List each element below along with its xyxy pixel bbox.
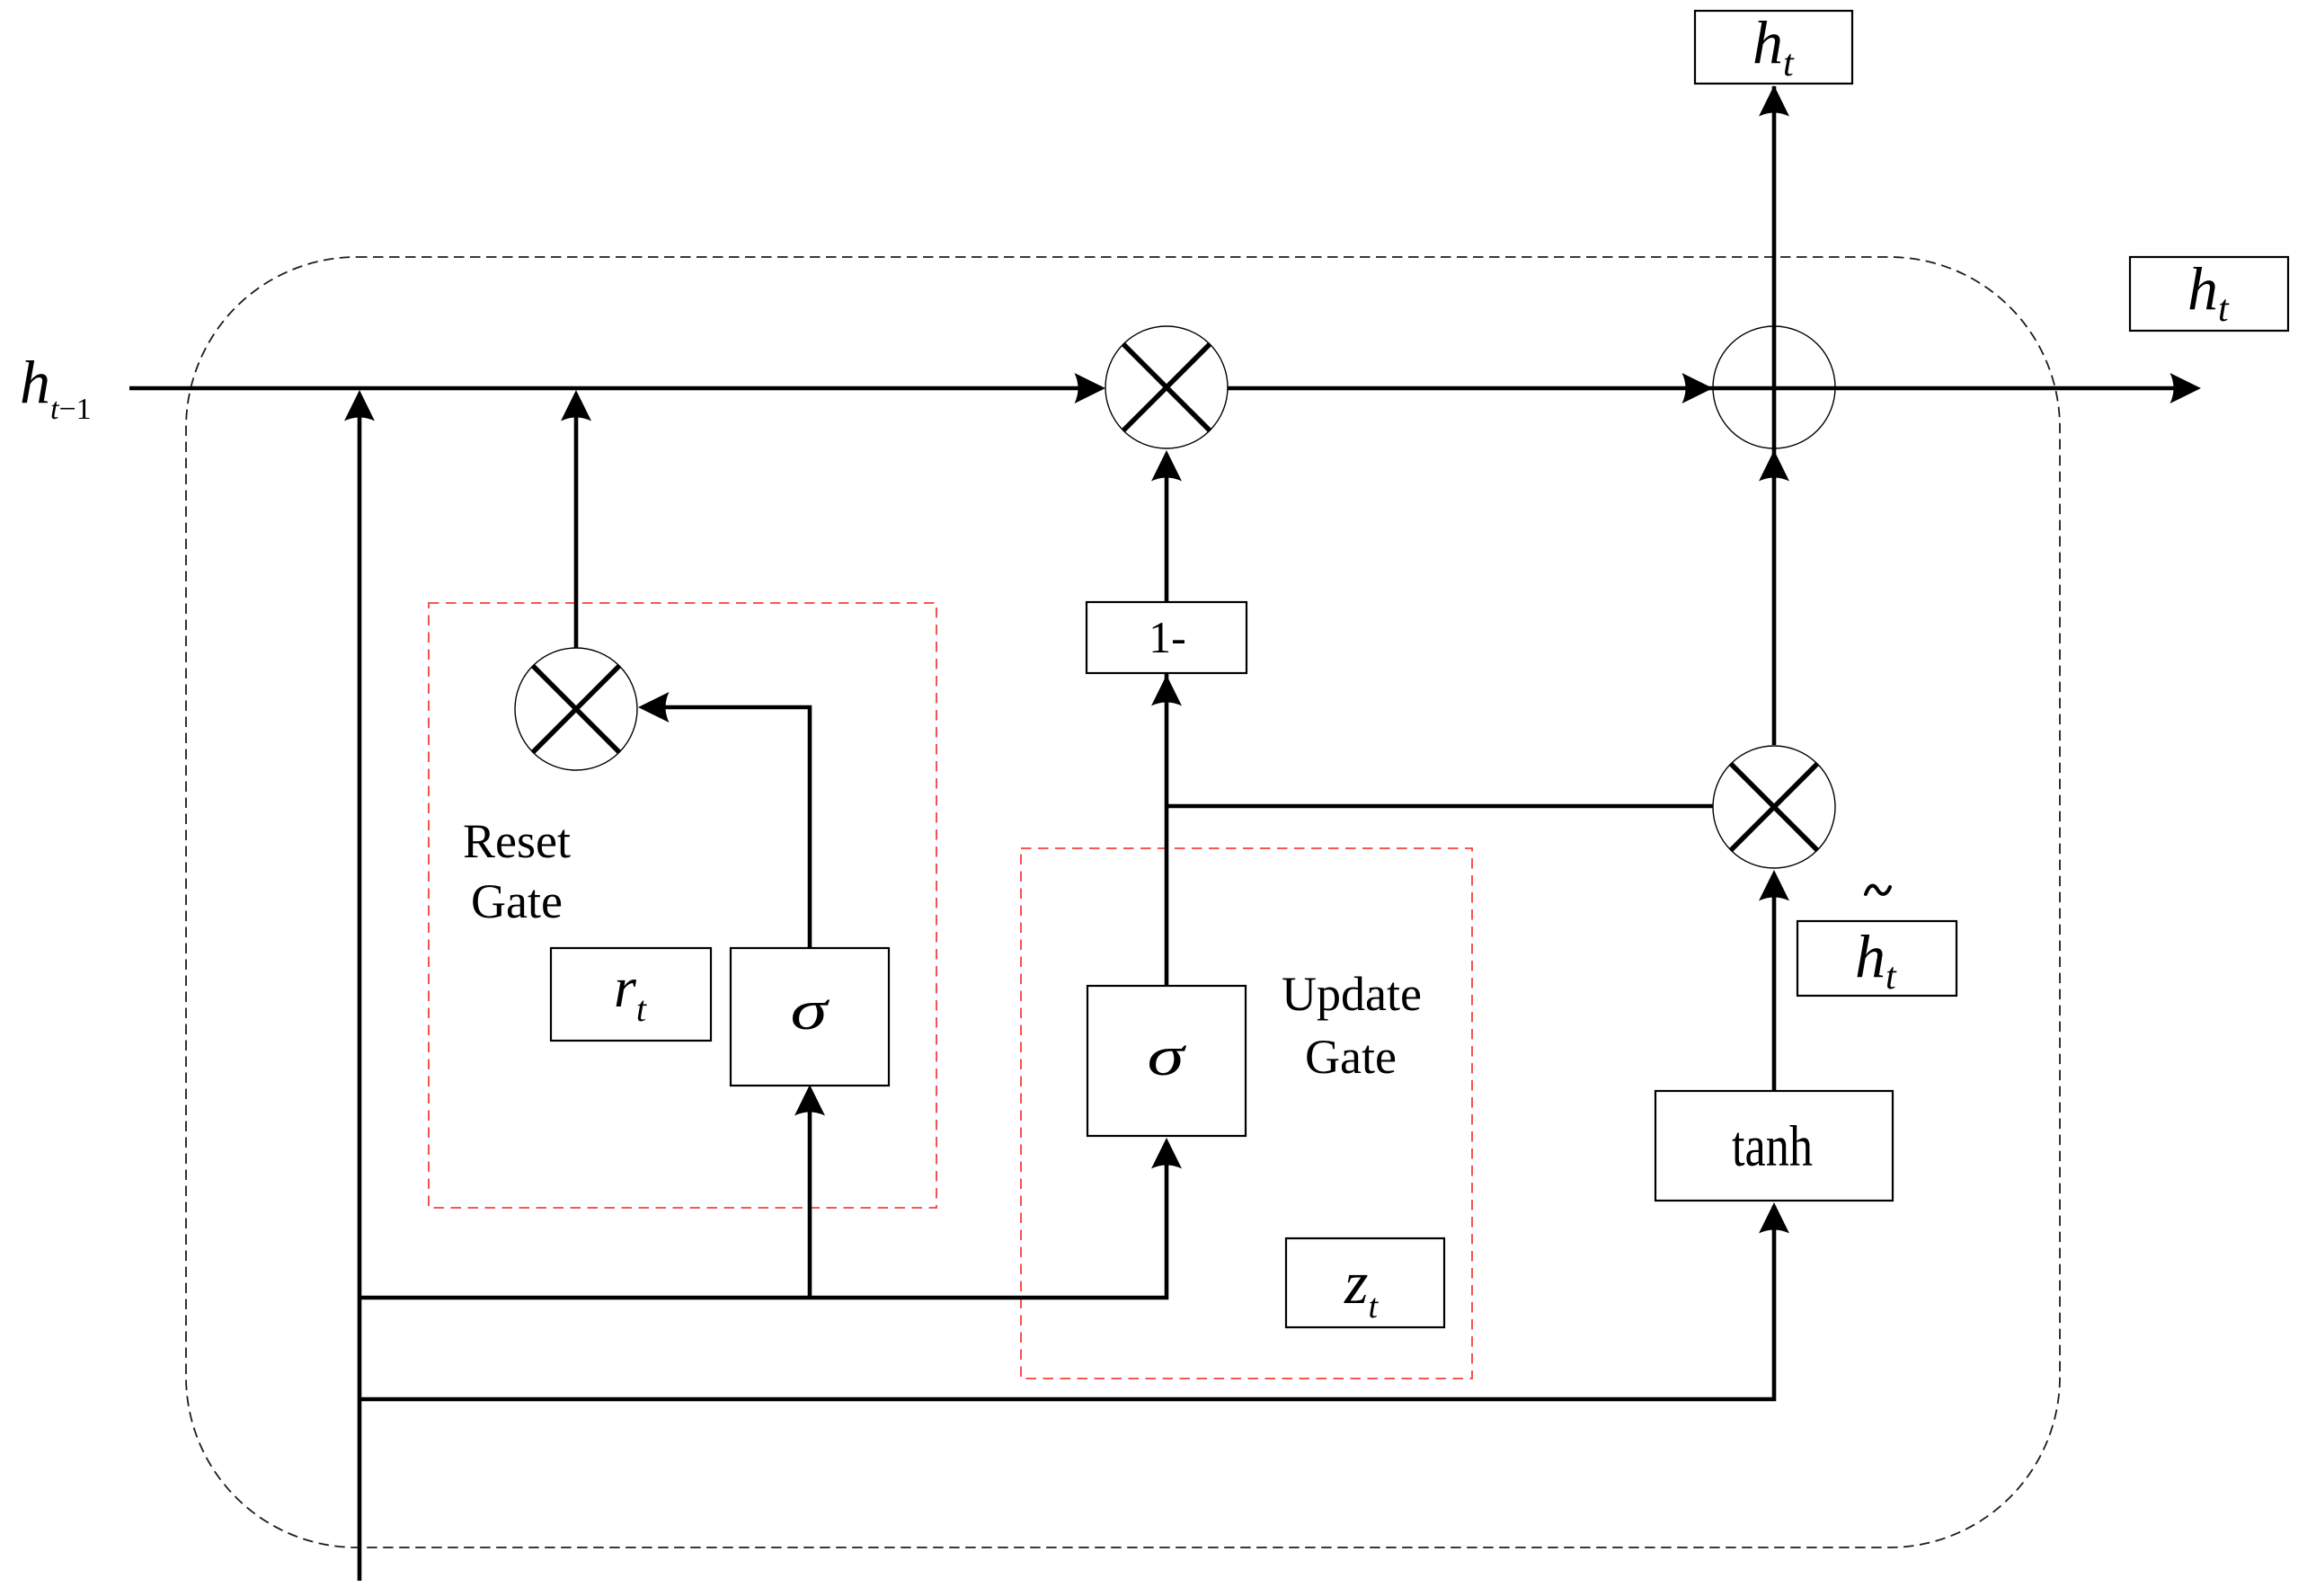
svg-text:tanh: tanh	[1732, 1114, 1813, 1179]
svg-text:Gate: Gate	[471, 874, 563, 928]
svg-text:σ: σ	[1147, 1024, 1186, 1087]
svg-text:σ: σ	[790, 979, 830, 1042]
svg-text:Reset: Reset	[463, 814, 571, 868]
svg-text:1-: 1-	[1149, 612, 1186, 662]
svg-text:Gate: Gate	[1305, 1030, 1397, 1084]
svg-text:Update: Update	[1282, 967, 1422, 1021]
